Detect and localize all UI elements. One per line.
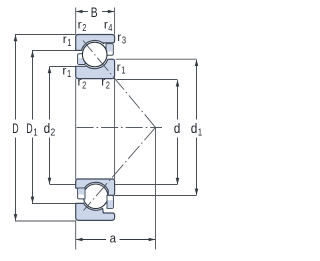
- svg-text:r: r: [101, 75, 105, 89]
- cage bar right top section: [106, 44, 113, 56]
- svg-text:D: D: [26, 121, 33, 136]
- wire D1 extension bottom: [32, 203, 76, 205]
- wire D1 extension top: [32, 50, 76, 52]
- svg-text:d: d: [174, 120, 181, 136]
- outer ring bottom section: [76, 203, 115, 221]
- wire d1 extension bottom right: [115, 195, 197, 197]
- inner ring bottom section: [76, 179, 115, 195]
- dimension a: [76, 239, 155, 241]
- wire left face extension line: [75, 8, 77, 250]
- inner ring top section: [76, 59, 115, 78]
- svg-text:d: d: [44, 120, 51, 136]
- svg-text:1: 1: [67, 37, 71, 49]
- svg-text:r: r: [78, 75, 82, 89]
- svg-text:2: 2: [106, 79, 110, 91]
- ball bottom section: [83, 184, 108, 209]
- svg-text:2: 2: [82, 79, 86, 91]
- svg-text:B: B: [91, 4, 98, 20]
- dimension d2: [49, 67, 51, 184]
- svg-text:a: a: [110, 231, 117, 246]
- svg-text:1: 1: [198, 127, 203, 139]
- svg-text:r: r: [117, 60, 121, 74]
- svg-text:1: 1: [33, 127, 38, 139]
- svg-text:r: r: [63, 32, 67, 46]
- wire D extension bottom: [15, 220, 76, 222]
- svg-text:1: 1: [67, 68, 71, 80]
- dimension d: [177, 80, 179, 184]
- contact angle line lower: [84, 127, 156, 210]
- svg-text:r: r: [78, 18, 82, 32]
- wire d2 extension bottom: [50, 184, 76, 186]
- wire d extension top right: [117, 79, 178, 81]
- svg-text:r: r: [62, 64, 66, 78]
- svg-text:2: 2: [50, 127, 55, 139]
- wire right face extension line: [114, 8, 116, 180]
- svg-text:4: 4: [108, 22, 112, 34]
- svg-text:2: 2: [82, 22, 86, 34]
- cage bar right bottom section: [107, 195, 113, 208]
- ball top section: [82, 42, 107, 67]
- wire d2 extension top: [50, 66, 76, 68]
- axis centerline: [77, 127, 163, 129]
- dimension B: [76, 11, 114, 13]
- svg-text:D: D: [12, 121, 19, 136]
- dimension D1: [32, 51, 34, 203]
- svg-text:r: r: [117, 30, 121, 44]
- svg-text:1: 1: [121, 65, 125, 77]
- cage bar left top section: [78, 54, 85, 65]
- outer ring top section: [76, 35, 115, 51]
- dimension D: [15, 35, 17, 220]
- cage bar left bottom section: [78, 188, 85, 199]
- svg-text:d: d: [191, 120, 198, 136]
- contact angle line upper: [83, 41, 156, 128]
- wire d1 extension top right: [116, 58, 197, 60]
- dimension d1: [196, 60, 198, 195]
- wire a right extension line: [155, 127, 157, 249]
- wire D extension top: [15, 34, 76, 36]
- wire d extension bottom right: [115, 184, 178, 186]
- svg-text:3: 3: [122, 35, 126, 47]
